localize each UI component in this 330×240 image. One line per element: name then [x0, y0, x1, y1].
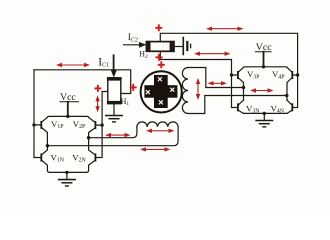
svg-text:H1: H1 — [121, 97, 130, 107]
svg-text:IC1: IC1 — [98, 57, 109, 69]
svg-text:V2P: V2P — [73, 119, 85, 130]
svg-text:IC2: IC2 — [128, 33, 138, 44]
svg-text:V2N: V2N — [72, 152, 86, 163]
svg-text:V3N: V3N — [246, 103, 260, 114]
svg-text:V1P: V1P — [51, 119, 63, 130]
svg-text:V4P: V4P — [272, 69, 284, 80]
svg-text:V4N: V4N — [271, 103, 285, 114]
svg-text:V1N: V1N — [51, 152, 65, 163]
svg-text:V3P: V3P — [247, 69, 259, 80]
